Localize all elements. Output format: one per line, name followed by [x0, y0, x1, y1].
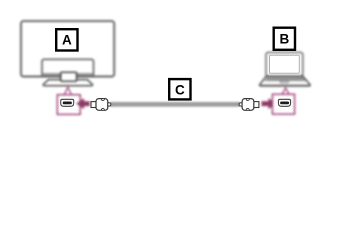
svg-text:C: C: [175, 82, 185, 97]
right plug dimple bottom: [246, 109, 249, 111]
laptop bottom edge: [259, 85, 311, 87]
TV stand neck: [61, 72, 77, 81]
right HDMI port: [278, 99, 290, 106]
right arrow: [262, 98, 277, 109]
left plug dimple bottom: [101, 109, 104, 111]
laptop screen inner: [270, 55, 300, 73]
right plug dimple top: [246, 99, 249, 101]
label A box: [56, 29, 77, 50]
svg-text:A: A: [62, 33, 72, 48]
TV caret leader: [64, 87, 71, 94]
left plug dimple top: [101, 99, 104, 101]
right pink box: [272, 94, 294, 114]
laptop keyboard band: [264, 77, 306, 81]
left HDMI pill: [63, 102, 72, 105]
TV bump: [42, 59, 94, 76]
left plug body: [96, 99, 108, 111]
TV frame: [21, 21, 114, 76]
right plug tip: [254, 102, 259, 108]
label B box: [274, 28, 295, 50]
right plug body: [242, 99, 254, 111]
TV strip: [43, 73, 93, 76]
TV frame fill: [21, 21, 114, 76]
label C box: [169, 79, 190, 99]
left plug tip: [91, 102, 96, 108]
laptop deck: [260, 76, 311, 85]
left pink box: [57, 95, 80, 115]
laptop caret leader: [282, 88, 289, 94]
laptop trackpad lip: [280, 81, 289, 83]
left arrow: [76, 98, 90, 109]
right plug neck: [239, 103, 242, 107]
left HDMI port: [61, 99, 74, 106]
laptop screen: [266, 52, 303, 76]
svg-text:B: B: [279, 32, 289, 47]
cable: [111, 103, 240, 106]
right HDMI pill: [280, 102, 289, 105]
left plug neck: [108, 103, 111, 107]
TV stand base: [43, 80, 92, 86]
